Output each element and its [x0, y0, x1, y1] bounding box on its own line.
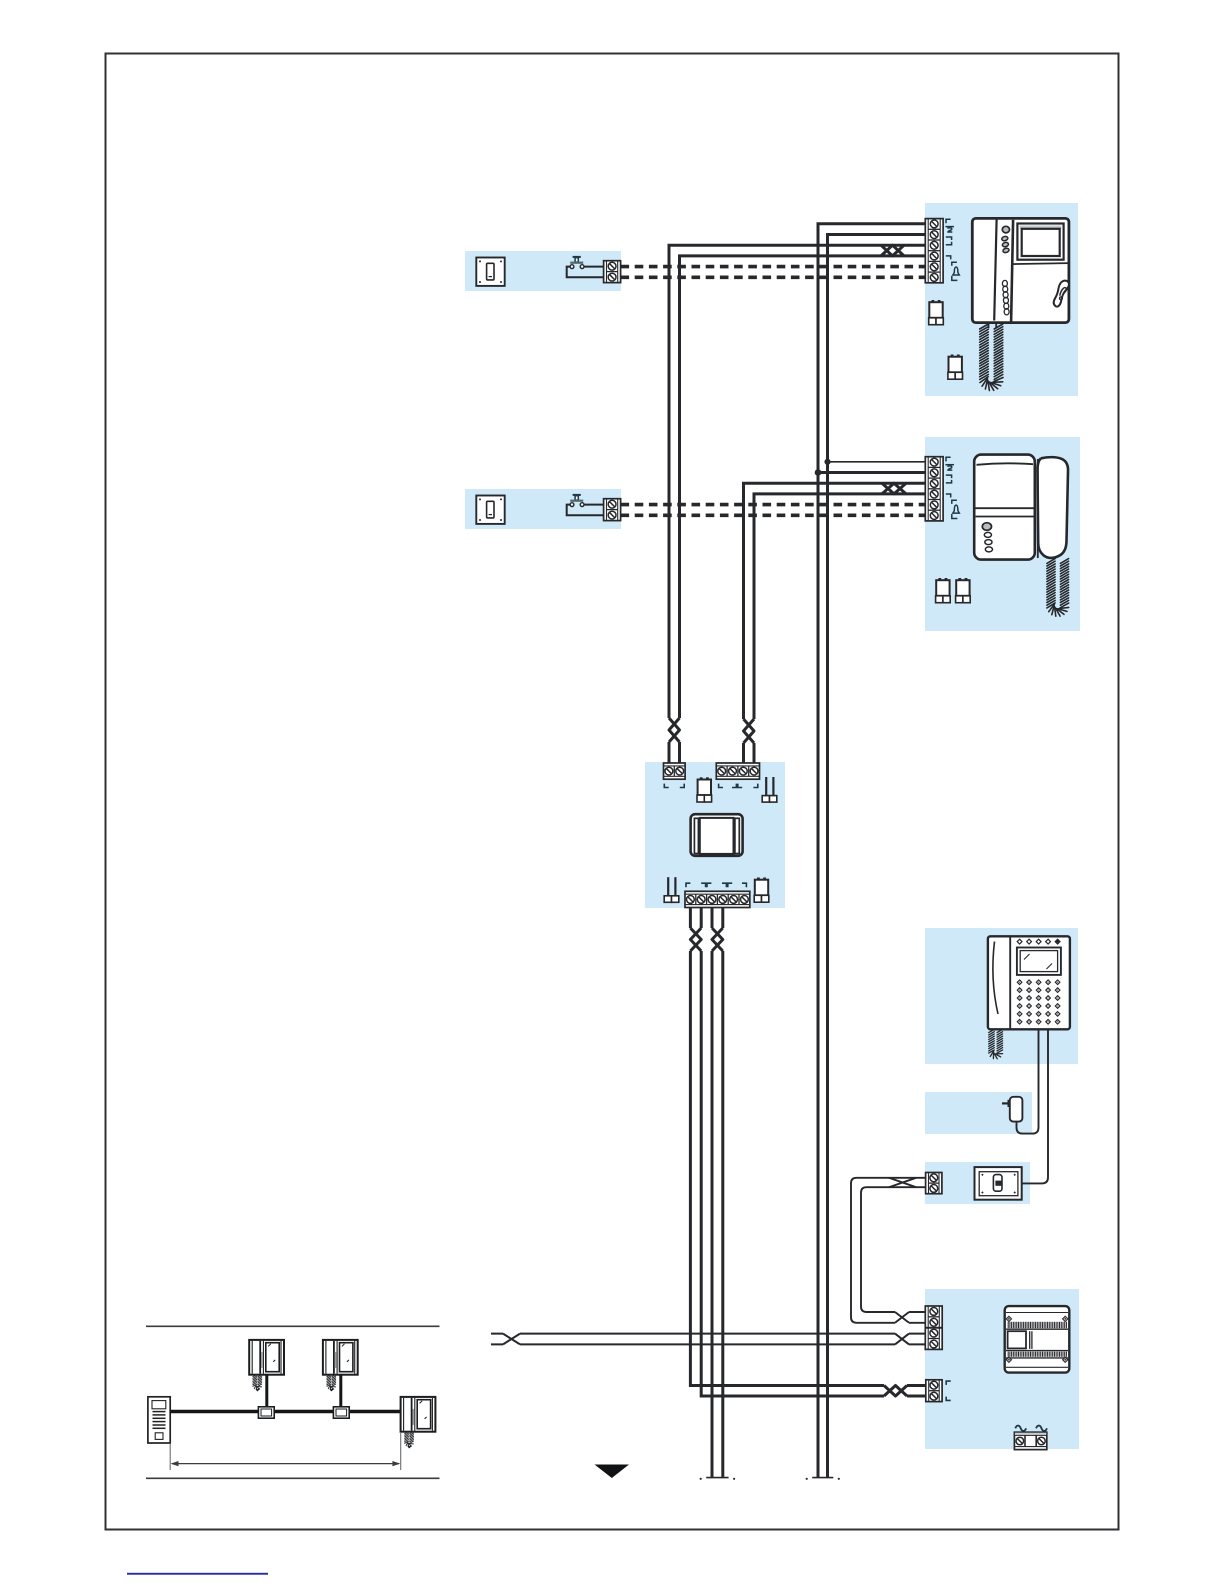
distributor input block 2: [716, 763, 759, 779]
audio intercom handset: [1037, 457, 1068, 558]
DIN-rail control unit: [1005, 1306, 1070, 1373]
inset: entrance panel: [148, 1397, 170, 1443]
wire end cut mark: [812, 1477, 833, 1479]
jumper (distributor top): [697, 777, 712, 802]
jumper (distributor bottom): [754, 878, 769, 903]
distributor output block: [685, 891, 750, 907]
control power block labels: [946, 1381, 951, 1400]
wire: external line pair lower: [491, 1343, 925, 1345]
flush wall plate (pushbutton 1): [476, 258, 504, 286]
twisted pair mark (distributor input 1): [669, 718, 680, 742]
video monitor speaker slits: [1002, 280, 1009, 315]
wire: power supply cord to switchboard: [1017, 1029, 1039, 1134]
distributor input block 1: [664, 763, 686, 779]
zone: concierge switchboard: [925, 928, 1078, 1064]
zone: plug-in power supply: [925, 1092, 1032, 1134]
crossover (line pair, at block): [895, 1334, 909, 1345]
zone: audio handset station: [925, 437, 1080, 631]
terminal block (pushbutton 2): [604, 499, 621, 521]
wire: distributor output 2b (riser continues): [721, 908, 724, 1477]
audio intercom body: [974, 455, 1035, 560]
cord tip: [256, 1389, 259, 1391]
video monitor handset cord: [980, 324, 1003, 391]
wire: monitor pair lower run: [680, 256, 905, 718]
distributor relay module: [691, 814, 743, 856]
video monitor ear icon: [1054, 281, 1069, 307]
video monitor terminal block: [925, 219, 943, 283]
jumper (audio, position 2): [956, 578, 971, 603]
inset: cord under monitor 1: [253, 1375, 262, 1390]
inset: bottom rule: [146, 1477, 440, 1479]
pushbutton symbol 2: [570, 494, 584, 507]
crossover (switch pair, at block): [895, 1312, 909, 1323]
wall switch plate: [975, 1167, 1022, 1200]
zone: floor distributor: [645, 762, 785, 908]
crossover (switch pair): [889, 1178, 916, 1187]
wire stubs into control terminals 1,2: [909, 1178, 926, 1323]
pin header (distributor bottom): [664, 877, 679, 902]
flush wall plate (pushbutton 2): [476, 496, 504, 524]
wire: audio pair upper run: [744, 483, 907, 719]
inset: bus line: [170, 1410, 401, 1413]
twisted pair mark (monitor feed): [881, 245, 904, 256]
wire: distributor output 1a: [690, 908, 884, 1386]
inset: cord under monitor 2: [327, 1375, 336, 1390]
inset: monitor icon 2: [323, 1340, 358, 1375]
inset: junction box 1: [258, 1407, 274, 1418]
terminal labels (video monitor): [945, 219, 959, 280]
twisted pair mark (distributor input 2): [744, 719, 755, 743]
switchboard handset cord: [989, 1029, 1003, 1058]
wire: switch loop upper: [851, 1178, 916, 1323]
wire: audio station branch to bus line 2: [828, 461, 929, 463]
plug-in power supply: [1002, 1097, 1022, 1122]
wire: audio station branch to bus line 1: [818, 471, 928, 474]
wire stubs into power terminal block: [907, 1386, 925, 1397]
terminal block (pushbutton 1): [604, 261, 621, 283]
inset: junction box 2: [333, 1407, 349, 1418]
wire stubs into audio terminals 3,4: [906, 483, 925, 494]
jumper (monitor, position 1): [929, 300, 944, 325]
switchboard top key row: [1017, 939, 1060, 944]
footer link underline: [127, 1573, 268, 1575]
crossover (line pair, far end): [503, 1334, 520, 1345]
wire: distributor output 1b: [701, 908, 884, 1396]
wall switch terminal block: [926, 1173, 942, 1194]
wire end cut mark: [706, 1477, 728, 1479]
wire stubs into monitor terminals 3,4: [904, 245, 925, 256]
mains AC terminal block: [1014, 1426, 1047, 1450]
control unit power block: [926, 1380, 942, 1402]
continuation arrow: [595, 1465, 630, 1479]
inset: monitor icon 1: [249, 1340, 284, 1375]
wire: pushbutton 2 loop: [567, 505, 604, 516]
wire: pushbutton 1 loop: [567, 267, 604, 278]
cord tip: [330, 1389, 333, 1391]
wire: audio pair lower run: [754, 494, 906, 719]
control unit line block: [925, 1306, 942, 1349]
wire: switchboard line to wall switch: [1001, 1029, 1048, 1183]
inset: dimension arrow: [172, 1463, 399, 1465]
wire: riser bus line 2 (monitor terminal 2 to column foot): [828, 235, 929, 1478]
inset: drop line 2: [339, 1375, 342, 1408]
pushbutton symbol 1: [570, 256, 584, 269]
twisted pair mark (output 2): [712, 928, 723, 951]
junction: bus line 2 tap: [824, 459, 830, 465]
inset: drop line 1: [265, 1375, 268, 1408]
terminal labels (audio intercom): [945, 457, 959, 518]
wire: pushbutton 2 dashed pair: [621, 503, 929, 507]
switchboard display: [1017, 948, 1061, 975]
zone: video monitor station: [925, 203, 1078, 396]
video monitor screen: [1017, 224, 1063, 260]
cord tip: [408, 1446, 411, 1448]
switchboard body: [988, 936, 1070, 1029]
jumper (monitor, position 2): [948, 355, 963, 380]
page border frame: [106, 54, 1119, 1530]
wire: riser bus line 1 (monitor terminal 1 to column foot): [818, 224, 928, 1477]
DIN unit fixing screws: [1006, 1316, 1067, 1362]
wire: distributor input pair 2 tails: [744, 743, 755, 763]
twisted pair mark (audio feed): [882, 483, 906, 494]
audio handset cord: [1047, 559, 1069, 617]
pin header (distributor top): [762, 777, 777, 802]
inset: cord under monitor 3: [405, 1432, 414, 1447]
video monitor body: [972, 218, 1069, 328]
video monitor buttons: [1001, 226, 1009, 253]
wire: distributor input pair tails: [669, 742, 680, 763]
audio intercom terminal block: [925, 457, 943, 521]
wire: pushbutton 1 dashed pair: [621, 265, 929, 269]
zone: doorbell pushbutton 1: [465, 251, 621, 291]
wire: external line pair upper: [491, 1333, 925, 1335]
wire: monitor pair upper run: [669, 245, 904, 718]
zone: line switch: [925, 1162, 1030, 1204]
switchboard keypad: [1017, 980, 1060, 1024]
inset: top rule: [146, 1325, 440, 1327]
distributor terminal group labels: [664, 784, 758, 888]
wire: distributor output 2a (riser continues): [711, 908, 714, 1477]
wire: switch loop lower: [861, 1187, 916, 1312]
junction: bus line 1 tap: [815, 469, 822, 476]
control line block divider: [925, 1327, 942, 1329]
audio intercom buttons: [982, 523, 992, 552]
inset: monitor icon 3: [401, 1397, 436, 1432]
zone: control unit / power supply: [925, 1289, 1079, 1449]
jumper (audio, position 1): [936, 578, 951, 603]
inset: dimension ticks: [169, 1443, 171, 1470]
twisted pair mark (power feed): [884, 1386, 907, 1397]
twisted pair mark (output 1): [690, 928, 701, 951]
zone: doorbell pushbutton 2: [465, 489, 621, 529]
